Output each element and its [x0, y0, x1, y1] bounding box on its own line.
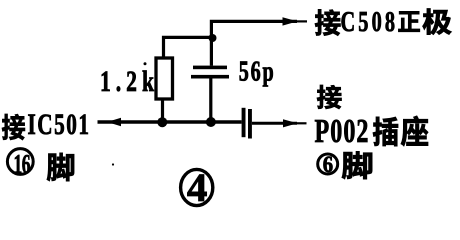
svg-text:6: 6: [323, 152, 333, 177]
svg-text:IC501: IC501: [28, 108, 89, 141]
svg-text:P002: P002: [315, 113, 369, 150]
svg-text:C508: C508: [341, 7, 396, 38]
svg-text:56p: 56p: [239, 56, 274, 87]
svg-text:1.2k: 1.2k: [100, 65, 154, 98]
svg-text:4: 4: [187, 165, 208, 210]
svg-text:16: 16: [14, 149, 31, 179]
